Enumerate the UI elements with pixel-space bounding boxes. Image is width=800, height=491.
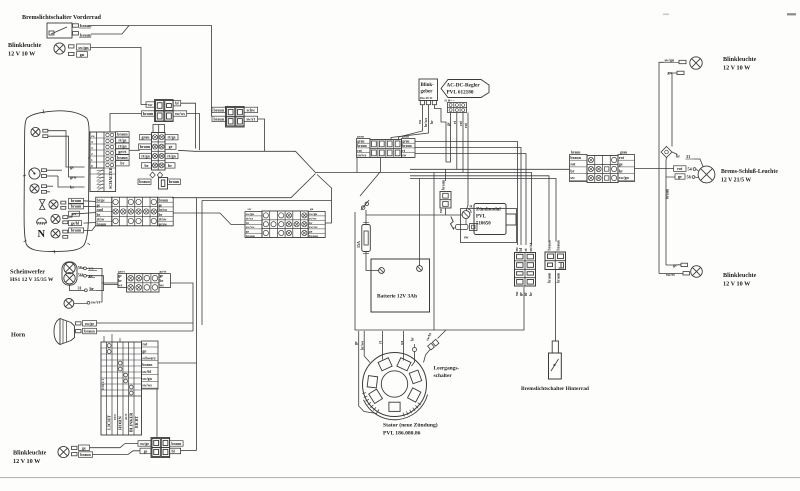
label sw/gr horn xyxy=(83,321,97,327)
svg-text:ge: ge xyxy=(447,122,451,126)
tab E2 pin2 xyxy=(677,71,684,74)
wire 56a to strip SH xyxy=(86,268,118,283)
battery G1 xyxy=(371,259,430,312)
svg-text:braun: braun xyxy=(548,240,552,251)
svg-text:braun: braun xyxy=(140,144,151,149)
wire 31 to tail lamp xyxy=(694,159,703,167)
wire U1 pin3 down xyxy=(462,113,464,173)
svg-text:braun: braun xyxy=(246,234,255,238)
wire S6 col down to trunk xyxy=(380,158,382,172)
ignition module U2 PVL xyxy=(474,204,506,235)
stator coil NNE xyxy=(397,358,411,371)
wire rail A to E4 pin2 xyxy=(659,273,683,275)
S2 right label ge xyxy=(165,144,176,149)
svg-text:gn: gn xyxy=(80,52,85,57)
diamond connector D1 xyxy=(661,147,672,158)
wire sw/gn E1 to connector C1 xyxy=(91,48,148,105)
wire U1 pin1 down xyxy=(446,113,451,163)
connector C8 2x4 xyxy=(515,253,536,287)
terminal strip S3 right labels xyxy=(158,197,174,226)
wire S6 right row1 to C8 xyxy=(415,142,518,246)
S2 right label rt/ge xyxy=(165,135,178,140)
wire braun SW1 pin2 joining xyxy=(91,26,129,35)
svg-text:sw/gr: sw/gr xyxy=(85,321,95,326)
svg-text:grau: grau xyxy=(402,139,409,143)
svg-text:sw/ws: sw/ws xyxy=(175,111,185,116)
wire S6 right row3 to C8 xyxy=(415,154,526,246)
svg-text:sw: sw xyxy=(402,154,406,158)
svg-text:sw/gn: sw/gn xyxy=(665,58,676,63)
wire secondary rail vertical xyxy=(201,201,203,326)
strip S6 left labels xyxy=(357,139,371,158)
S2 bottom diamonds xyxy=(150,172,155,178)
speedometer gauge P1 xyxy=(29,168,40,179)
wire S3 right to S4 xyxy=(173,213,245,225)
svg-text:rt/sw: rt/sw xyxy=(97,218,105,222)
svg-text:PVL 186.080.86: PVL 186.080.86 xyxy=(383,431,421,437)
svg-text:rot: rot xyxy=(619,155,625,160)
label sw/rt C2 right bottom xyxy=(244,116,258,121)
svg-text:braun: braun xyxy=(139,179,150,184)
label box sw/gn xyxy=(77,44,91,50)
wire H1 pin2 to S1 xyxy=(48,136,85,177)
S1 right label braun xyxy=(116,155,130,160)
svg-text:Scheinwerfer: Scheinwerfer xyxy=(10,269,45,276)
stator outer double rim arc xyxy=(364,395,428,420)
label sw/ws C1 right bottom xyxy=(173,111,187,116)
svg-text:gru: gru xyxy=(70,175,77,180)
tab H1 pin2 xyxy=(43,135,48,138)
svg-text:RICHT: RICHT xyxy=(135,416,139,428)
wire br to bundle xyxy=(96,285,104,291)
svg-text:schw: schw xyxy=(247,107,256,112)
wire rail A right side xyxy=(659,62,664,273)
svg-text:AUS: AUS xyxy=(124,413,128,420)
wire K1 49a to S6 xyxy=(399,105,423,140)
svg-text:sw/rt: sw/rt xyxy=(528,242,533,251)
svg-text:EIN: EIN xyxy=(113,414,117,420)
U2 right tab xyxy=(506,214,516,225)
svg-text:braun: braun xyxy=(143,111,154,116)
S8 top stubs xyxy=(103,336,105,342)
tab B1 pin1 xyxy=(76,322,82,325)
lamp E1 front turn signal xyxy=(54,43,65,54)
wire L4 to C9 right xyxy=(410,179,556,242)
svg-text:ge/rt: ge/rt xyxy=(118,270,126,274)
tab H2 pin2 xyxy=(42,190,47,193)
wire K1 49 to S6 xyxy=(391,105,428,140)
S2 contact circles xyxy=(152,135,157,140)
svg-text:ge/rt: ge/rt xyxy=(118,149,127,154)
svg-text:grau: grau xyxy=(357,139,364,143)
wire 56b to strip SH xyxy=(86,276,118,285)
label braun C1 left bottom xyxy=(142,111,155,116)
tab H4 pin2 xyxy=(63,221,68,224)
svg-text:br: br xyxy=(619,168,623,173)
svg-text:ge: ge xyxy=(70,165,74,170)
svg-text:ws: ws xyxy=(400,340,404,345)
svg-text:1: 1 xyxy=(91,158,93,162)
svg-text:sw/gn: sw/gn xyxy=(619,175,630,180)
stator coil S xyxy=(389,402,400,411)
wire fuse branch diagonal xyxy=(360,172,381,197)
svg-text:br: br xyxy=(145,163,149,168)
svg-text:12 V 10 W: 12 V 10 W xyxy=(723,281,751,288)
wire position to bundle xyxy=(101,283,103,302)
svg-text:br: br xyxy=(90,286,94,291)
wire H5 to S3 xyxy=(84,222,96,225)
vertical connector VB xyxy=(440,192,451,209)
wire rail B lower xyxy=(665,158,668,266)
terminal strip S4 left labels xyxy=(245,212,262,238)
S2 left label grau xyxy=(140,135,152,140)
svg-text:ge: ge xyxy=(144,450,148,454)
svg-text:br: br xyxy=(118,279,122,283)
svg-text:sw/bl: sw/bl xyxy=(142,370,150,374)
svg-text:braun: braun xyxy=(159,199,168,203)
svg-text:braun: braun xyxy=(142,363,153,367)
inline fuse holder link xyxy=(361,200,369,210)
svg-text:br/ge: br/ge xyxy=(97,199,105,203)
svg-text:bl: bl xyxy=(172,449,175,453)
label bl C1 right top xyxy=(173,101,181,106)
switch table S1 xyxy=(90,132,116,192)
wire SH right to rail xyxy=(170,283,193,323)
wire U1 pin4 to spark xyxy=(466,113,468,212)
svg-text:ge: ge xyxy=(89,273,93,278)
svg-text:braun: braun xyxy=(117,155,128,160)
spark plug X1 xyxy=(462,211,470,219)
S2 right label br xyxy=(165,163,175,168)
wire P1 wires xyxy=(47,169,63,171)
S2 left label rt/gn xyxy=(140,153,152,158)
connector C1 2x2 xyxy=(155,100,174,122)
svg-text:ge/sw: ge/sw xyxy=(159,222,168,226)
K1 pin 49a xyxy=(420,101,424,105)
svg-text:31: 31 xyxy=(78,285,82,290)
svg-text:sw: sw xyxy=(570,175,575,180)
svg-text:0: 0 xyxy=(91,164,93,168)
svg-text:braun: braun xyxy=(71,228,82,233)
svg-text:braun: braun xyxy=(402,144,411,148)
wire C8 bottom to enclosure xyxy=(434,287,524,330)
label schw C2 right top xyxy=(244,107,258,112)
tab H1 pin1 xyxy=(43,129,48,132)
plug cable connector xyxy=(456,225,469,230)
svg-text:grau: grau xyxy=(142,135,151,140)
headlight filament low xyxy=(64,273,75,284)
wire diamond to pin 31 xyxy=(672,152,678,155)
svg-text:braun: braun xyxy=(309,234,318,238)
lamp E7 rear left turn signal xyxy=(58,446,69,457)
svg-text:ge: ge xyxy=(118,274,122,278)
stator inner circle xyxy=(381,371,407,397)
svg-text:ge/rt: ge/rt xyxy=(160,270,168,274)
svg-text:schwarz: schwarz xyxy=(142,356,156,360)
svg-text:br: br xyxy=(160,279,164,283)
svg-text:br: br xyxy=(528,292,533,296)
S8 right labels xyxy=(142,341,159,389)
scan artifact dot xyxy=(663,14,669,16)
S1 right label br xyxy=(116,161,130,166)
svg-text:br: br xyxy=(168,163,172,168)
wire stator br/ws xyxy=(364,331,370,363)
svg-text:braun: braun xyxy=(214,107,225,112)
wire pin58 stub xyxy=(666,176,675,178)
label braun E7 xyxy=(79,452,93,458)
svg-text:Batterie 12V 3Ah: Batterie 12V 3Ah xyxy=(377,294,417,300)
label braun C2 left bottom xyxy=(212,116,226,121)
svg-text:HORN: HORN xyxy=(118,416,123,430)
svg-text:510650: 510650 xyxy=(476,222,491,227)
svg-text:9 56 4 1: 9 56 4 1 xyxy=(101,379,105,390)
wire VB down xyxy=(445,208,447,215)
svg-text:braun: braun xyxy=(214,116,225,121)
svg-text:sw: sw xyxy=(439,209,443,213)
S7 contact circles xyxy=(588,157,593,162)
S1 inner contact circles xyxy=(106,133,109,136)
wire braun C1 left to switch table S1 xyxy=(110,114,142,133)
svg-text:4: 4 xyxy=(91,140,93,144)
svg-text:N: N xyxy=(38,229,46,240)
label box gn xyxy=(77,52,88,58)
svg-text:sw/ws: sw/ws xyxy=(357,154,367,158)
wire H3 to S3 xyxy=(84,200,96,203)
front brake light switch SW1 xyxy=(47,23,72,38)
connector Cbl 2x2 xyxy=(151,438,170,458)
S4 contact circles xyxy=(263,213,268,218)
tab SW1 pin 2 xyxy=(73,32,79,35)
S1 right label ge/rt xyxy=(116,149,130,154)
svg-text:PVL 612180: PVL 612180 xyxy=(447,90,474,96)
svg-text:rot: rot xyxy=(570,162,576,167)
svg-text:ge: ge xyxy=(619,162,623,167)
connector C2 2x2 xyxy=(226,107,245,128)
wire 31 terminal headlight xyxy=(70,285,85,290)
loom branch to S4 right xyxy=(317,175,332,224)
terminal strip S4 right labels xyxy=(308,212,325,238)
wire H2 stub xyxy=(47,185,54,187)
svg-text:Bremslichtschalter Vorderrad: Bremslichtschalter Vorderrad xyxy=(22,14,102,21)
S1 right label rt/gn xyxy=(116,143,130,148)
S8 contact circles xyxy=(107,344,111,348)
svg-text:br: br xyxy=(70,185,74,190)
wire C1 right top to loom xyxy=(181,103,196,148)
stator coil ENE xyxy=(409,370,421,384)
wire S7 right to tail lamp 54 xyxy=(635,168,675,170)
svg-text:raul: raul xyxy=(97,208,103,212)
svg-text:sw: sw xyxy=(248,207,252,211)
label braun Cbl right xyxy=(170,441,184,447)
wire H1 to S1 (ge) xyxy=(48,131,85,167)
label rot pin54 xyxy=(674,166,687,172)
strip S6 right labels xyxy=(402,139,416,158)
strip SH right labels xyxy=(159,274,170,288)
indicator lamp H3 xyxy=(49,200,58,209)
turn indicator symbol xyxy=(40,200,46,205)
wire braun SW1 to connector C2 xyxy=(91,26,212,117)
svg-text:braun: braun xyxy=(557,272,561,283)
svg-text:Leergangs-: Leergangs- xyxy=(434,366,460,372)
svg-text:Bremslichtschalter Hinterrad: Bremslichtschalter Hinterrad xyxy=(521,386,589,392)
wire horn pin2 to rail xyxy=(97,330,194,332)
strip S7 right labels xyxy=(618,155,635,182)
tab B1 pin2 xyxy=(76,330,82,333)
stator outer ring xyxy=(363,353,427,417)
svg-text:ge: ge xyxy=(159,203,163,207)
tail lamp E3 Brems-Schluss-Leuchte xyxy=(698,166,715,183)
svg-text:15A: 15A xyxy=(356,241,361,248)
instrument cluster housing outline xyxy=(24,111,89,252)
svg-text:geber: geber xyxy=(421,90,434,95)
svg-text:br/sw: br/sw xyxy=(159,208,168,212)
S2 top extension cells xyxy=(153,125,165,133)
outline tick marks xyxy=(43,110,44,114)
svg-text:br: br xyxy=(570,168,574,173)
tab H5 pin2 xyxy=(63,235,68,238)
svg-text:br/ws: br/ws xyxy=(424,117,428,127)
indicator lamp H4 xyxy=(51,214,60,223)
neutral switch pin symbol xyxy=(438,330,447,339)
S2 left label braun xyxy=(139,144,152,149)
wire rail B right side xyxy=(672,73,677,147)
indicator lamp H1 xyxy=(31,127,40,136)
stator rim hatch lower-right xyxy=(418,403,421,405)
lamp E2 top right turn signal xyxy=(690,57,702,69)
svg-text:2: 2 xyxy=(91,152,93,156)
svg-text:braun: braun xyxy=(97,222,106,226)
stator coil W xyxy=(367,376,377,388)
label ge/bl H5 xyxy=(69,221,82,226)
svg-text:schalter: schalter xyxy=(434,373,453,379)
stator coil ESE xyxy=(408,388,421,402)
svg-text:31 B+ ~: 31 B+ ~ xyxy=(444,99,455,103)
rear brake light switch SW2 xyxy=(552,341,558,353)
terminal strip S3 left labels xyxy=(96,197,112,226)
svg-text:braun: braun xyxy=(171,442,182,446)
loom trunk bottom edge xyxy=(172,174,316,198)
svg-text:sw: sw xyxy=(91,134,95,138)
svg-text:br: br xyxy=(676,154,680,159)
svg-text:ge: ge xyxy=(310,207,314,211)
svg-text:Blinkleuchte: Blinkleuchte xyxy=(723,56,757,63)
headlight filament high xyxy=(64,262,75,273)
headlight E5 housing xyxy=(62,262,77,285)
svg-text:braun: braun xyxy=(71,198,82,203)
svg-text:SCHALTER: SCHALTER xyxy=(108,167,113,189)
wire K1 31 down xyxy=(434,105,446,162)
label braun horn xyxy=(83,328,97,334)
svg-text:br: br xyxy=(411,337,415,341)
svg-text:12 V 10 W: 12 V 10 W xyxy=(723,65,751,72)
strip S7 left labels xyxy=(570,155,588,182)
svg-text:sw/rt: sw/rt xyxy=(91,300,101,305)
svg-text:braun: braun xyxy=(80,32,92,37)
svg-text:49a 49 31: 49a 49 31 xyxy=(420,96,433,100)
label ws H4 xyxy=(69,211,80,216)
wire S8 labels down to Cbl xyxy=(156,389,158,438)
svg-text:braun: braun xyxy=(357,144,366,148)
U1 connector grid xyxy=(448,103,467,113)
S2 bottom plug box xyxy=(159,178,168,190)
tab H3 pin1 xyxy=(61,201,66,204)
svg-text:sw/gn: sw/gn xyxy=(142,377,152,381)
stator coil WSW xyxy=(369,389,383,403)
svg-text:braun: braun xyxy=(80,23,92,28)
S2 right label rt/gn xyxy=(165,153,178,158)
svg-text:br: br xyxy=(159,213,163,217)
ignition lightning symbol xyxy=(451,217,454,230)
tab SW1 pin 1 xyxy=(73,24,79,27)
wire S6 left edge down xyxy=(356,158,358,173)
wire spark plug down xyxy=(465,218,467,224)
wire battery plus riser xyxy=(419,179,421,266)
svg-text:12 V 21/5 W: 12 V 21/5 W xyxy=(721,178,751,184)
connector block S2 xyxy=(152,133,166,171)
wire stator ws xyxy=(403,331,405,361)
wire S1 to S2 xyxy=(129,149,140,151)
svg-text:sw: sw xyxy=(418,120,422,124)
svg-text:12 V 10 W: 12 V 10 W xyxy=(13,458,41,465)
svg-text:Horn: Horn xyxy=(11,332,26,339)
wire H4 to S3 xyxy=(68,214,80,217)
svg-text:braun: braun xyxy=(169,179,180,184)
svg-text:Zündmodul: Zündmodul xyxy=(476,208,501,213)
svg-text:ws: ws xyxy=(160,283,165,287)
svg-text:rt/ge: rt/ge xyxy=(118,138,126,143)
svg-text:ge: ge xyxy=(82,445,86,450)
svg-text:rot: rot xyxy=(464,122,468,128)
svg-text:58: 58 xyxy=(687,175,691,180)
wire stator rt xyxy=(382,331,384,360)
svg-text:LICHT: LICHT xyxy=(107,415,112,430)
scan artifact line bottom xyxy=(0,477,800,478)
svg-text:3: 3 xyxy=(91,146,93,150)
tab E1 pin2 xyxy=(69,52,75,55)
label ge E7 xyxy=(79,445,90,451)
svg-text:rot: rot xyxy=(142,343,148,347)
wire to fuse xyxy=(365,210,367,224)
tab E4 pin1 xyxy=(681,263,688,266)
svg-text:PVL: PVL xyxy=(476,215,487,220)
svg-text:rot: rot xyxy=(459,120,463,126)
stator rim hatch lower-left xyxy=(362,393,366,394)
svg-text:Blink-: Blink- xyxy=(421,83,435,88)
svg-text:rt/gn: rt/gn xyxy=(118,143,127,148)
wire L3 to C9 left xyxy=(410,176,549,242)
svg-text:HS1 12 V 35/35 W: HS1 12 V 35/35 W xyxy=(10,277,54,283)
wire C9 down to rear brake switch xyxy=(555,270,557,342)
svg-text:Stator (neue Zündung): Stator (neue Zündung) xyxy=(383,422,438,429)
loom trunk top edge xyxy=(195,151,316,172)
svg-text:31: 31 xyxy=(686,154,690,159)
svg-text:br/ws: br/ws xyxy=(360,340,364,350)
horn B1 xyxy=(54,319,60,345)
wire enclosure right riser xyxy=(433,173,435,331)
SH contact circles xyxy=(128,275,134,281)
tab H2 pin1 xyxy=(42,185,47,188)
label braun C2 left top xyxy=(212,107,226,112)
svg-text:ge/bl: ge/bl xyxy=(71,220,80,225)
svg-text:sw: sw xyxy=(464,235,469,240)
tab E2 pin1 xyxy=(679,60,686,63)
wire S6 right row2 to C8 xyxy=(415,148,521,246)
wire L1 to S7 xyxy=(410,168,570,170)
label braun H3a xyxy=(69,198,84,203)
strip S7 grid xyxy=(587,156,618,183)
S2 left label br xyxy=(142,163,152,168)
fuse F1 15A xyxy=(362,225,371,252)
